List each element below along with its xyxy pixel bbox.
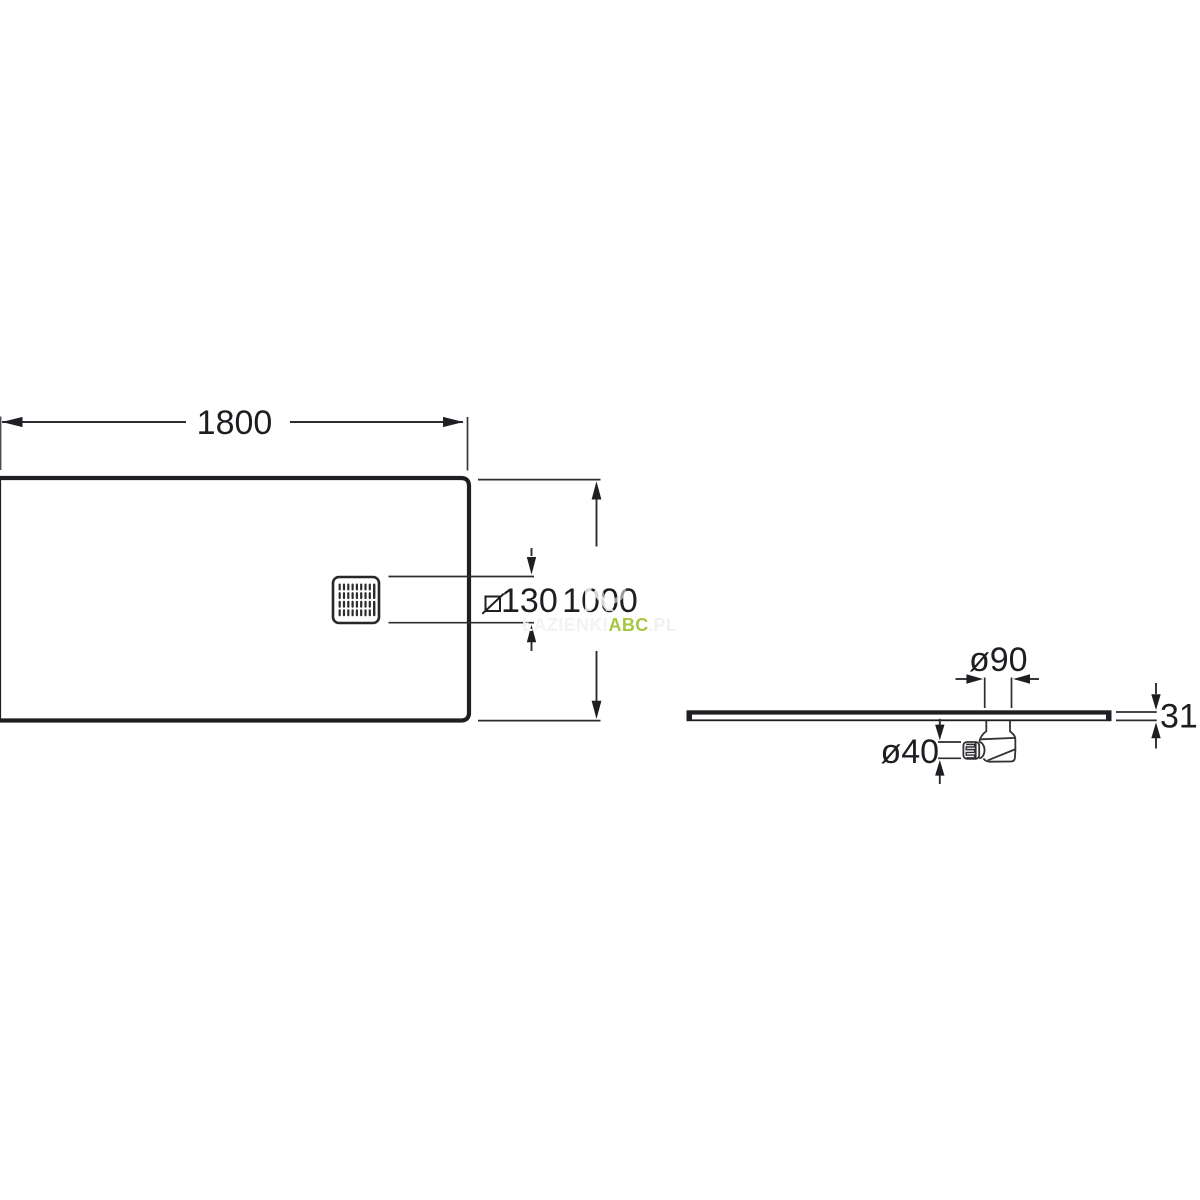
- plan view: shower tray outline: [0, 478, 469, 721]
- drain trap: nut: [963, 742, 979, 759]
- drain trap: neck right side and body right shoulder: [984, 721, 1016, 762]
- side view: tray profile: [687, 710, 1112, 721]
- svg-text:.PL: .PL: [648, 615, 677, 635]
- dim 1000: bottom extension line: [478, 720, 601, 722]
- dim o90: left arrow and line: [956, 678, 969, 680]
- svg-text:ø40: ø40: [881, 733, 940, 771]
- dim 31: upper down-arrow: [1155, 683, 1157, 694]
- dim 1800: dimension line: [2, 421, 463, 423]
- dim 130: lower up-arrow: [527, 625, 536, 643]
- dim o40: extension lines: [938, 742, 961, 758]
- drain trap: corrugation rib shading: [966, 743, 975, 749]
- dim 130: square symbol: [486, 597, 501, 612]
- dim o90: right arrow and line: [1028, 678, 1039, 680]
- svg-text:ABC: ABC: [609, 615, 649, 635]
- drain trap: neck left side curving to outlet: [963, 721, 1015, 762]
- dim 31: extension lines: [1116, 712, 1157, 720]
- dim 31: lower up-arrow: [1151, 722, 1160, 738]
- drain grate icon: [333, 577, 379, 623]
- drain trap: dome arc: [979, 742, 984, 759]
- drain trap: shoulder cross line: [981, 738, 1016, 739]
- drain trap: inner diagonal: [988, 750, 1015, 761]
- dim o40: upper down-arrow: [939, 719, 941, 726]
- dim 1800: left arrowhead: [2, 417, 23, 427]
- dim o40: lower up-arrow: [935, 760, 944, 776]
- svg-text:1800: 1800: [197, 404, 273, 442]
- drain trap: corrugation ribs: [966, 744, 974, 758]
- svg-text:31: 31: [1160, 698, 1198, 736]
- dim 1000: lower dimension line with down arrowhead: [596, 651, 598, 706]
- dim 130: top extension line: [389, 576, 535, 578]
- dim 130: upper down-arrow: [531, 548, 533, 556]
- dim 1800: right arrowhead: [443, 417, 464, 427]
- drain grate slots: [339, 584, 376, 617]
- svg-text:ø90: ø90: [969, 641, 1028, 679]
- dim 130: bottom extension line: [389, 622, 535, 624]
- dim 1000: upper dimension line with up arrowhead: [596, 495, 598, 547]
- dim o90: hole edge lines: [985, 678, 1012, 709]
- dim 1800: extension line right: [467, 417, 469, 471]
- dim 1000: top extension line: [478, 479, 601, 481]
- dim 1800: extension line left: [0, 417, 2, 471]
